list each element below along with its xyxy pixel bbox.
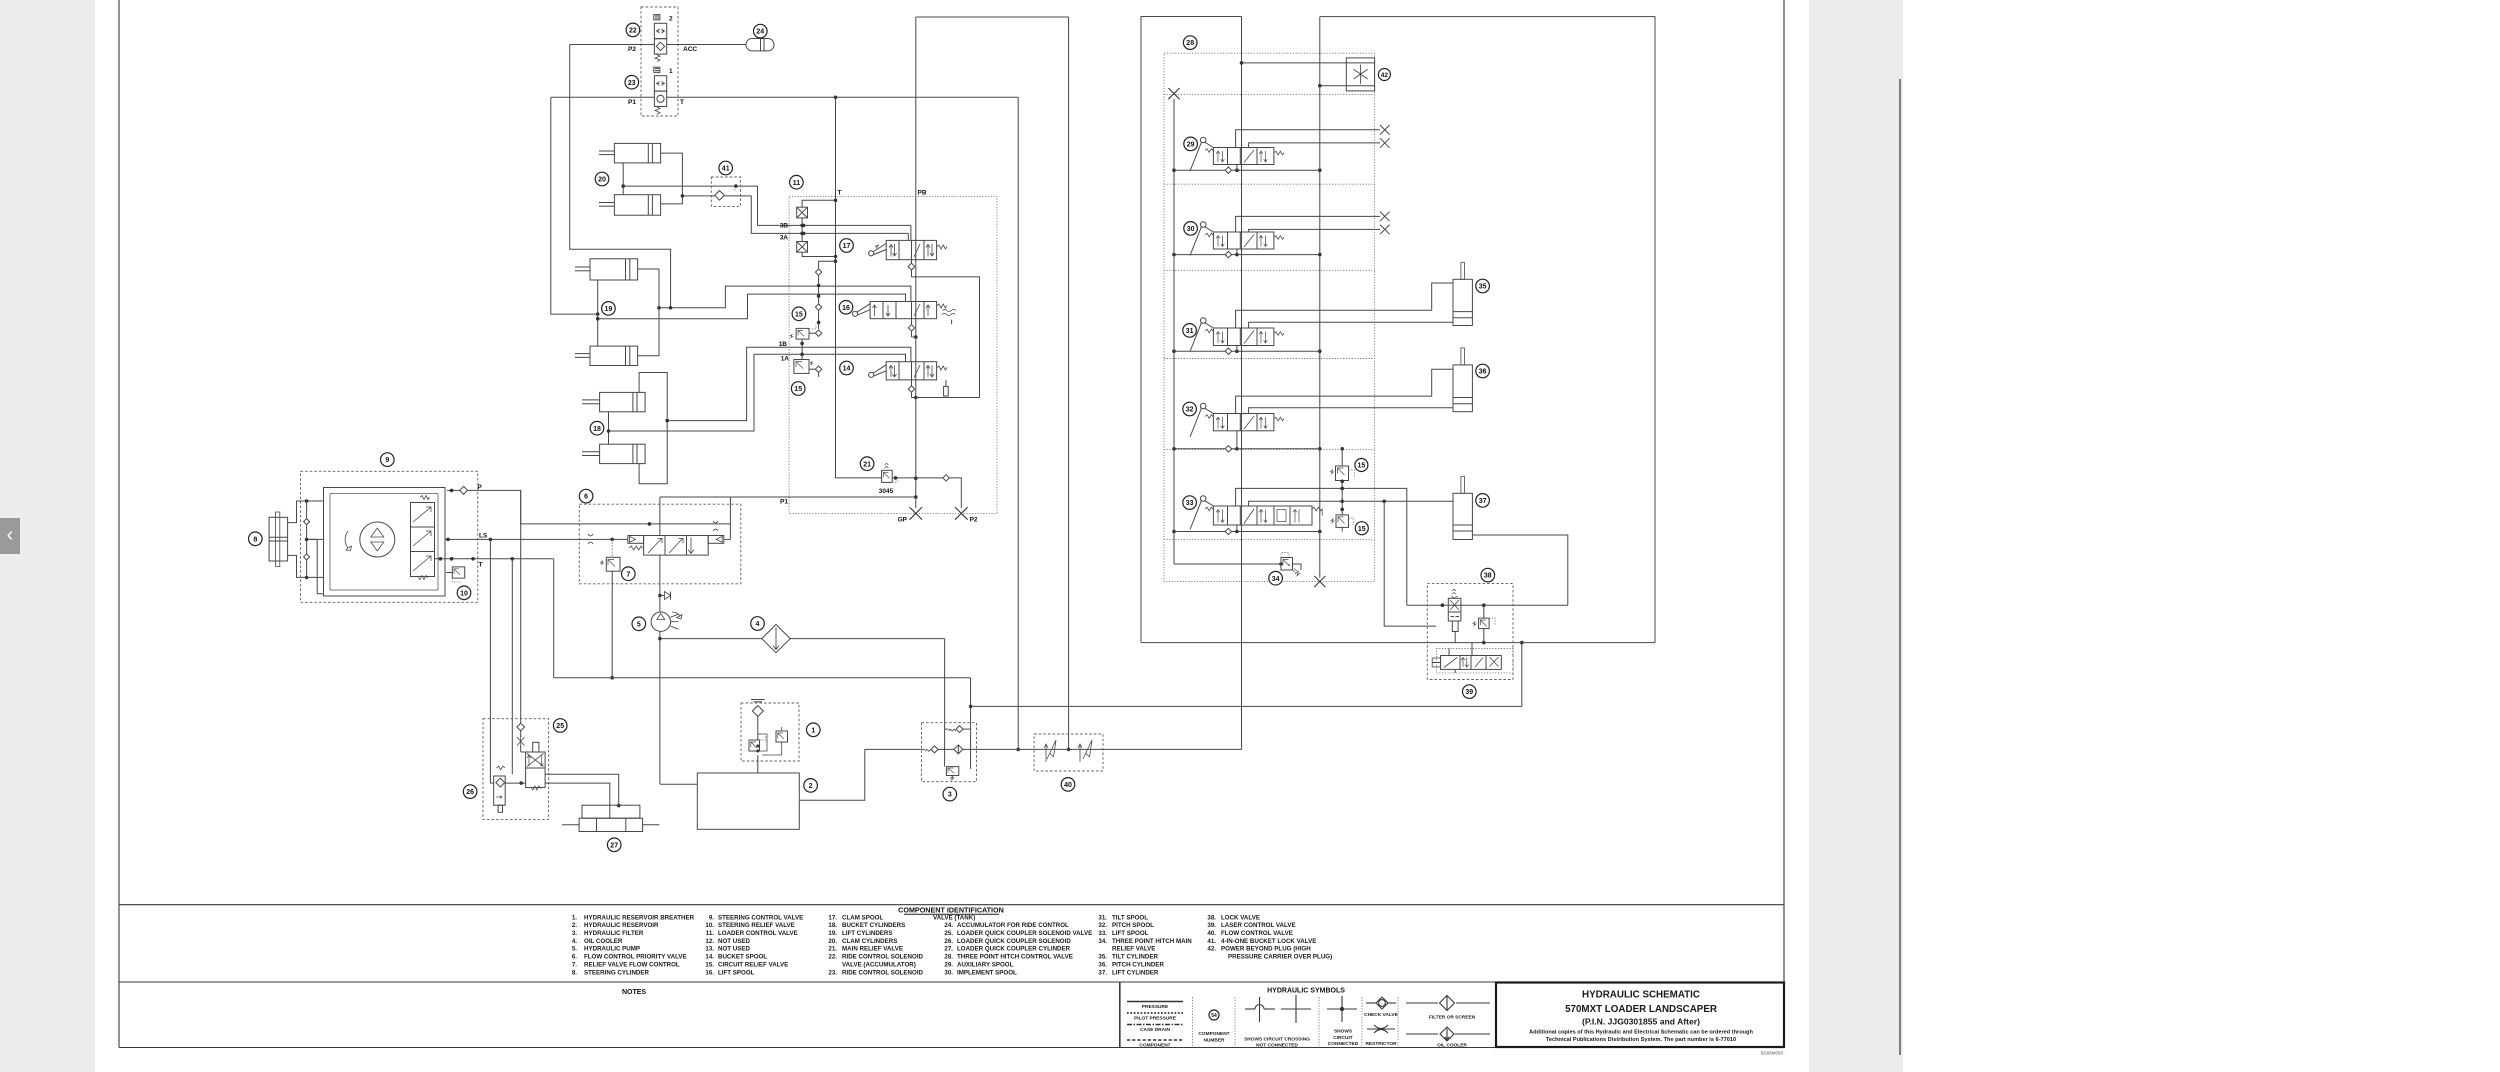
svg-text:LOADER QUICK COUPLER SOLENOID: LOADER QUICK COUPLER SOLENOID	[957, 938, 1071, 945]
wire loader return trunk	[1016, 97, 1020, 751]
pitch cylinder 36	[1453, 348, 1472, 412]
component number 28	[1183, 36, 1197, 50]
component list column 2	[705, 914, 803, 976]
svg-text:HYDRAULIC PUMP: HYDRAULIC PUMP	[584, 946, 640, 953]
line type samples	[1127, 1002, 1183, 1049]
component number 31	[1183, 324, 1197, 338]
svg-text:FILTER OR SCREEN: FILTER OR SCREEN	[1429, 1015, 1476, 1021]
lift spool valve 16	[853, 302, 956, 325]
filter relief	[946, 767, 958, 780]
svg-text:P2: P2	[970, 517, 978, 524]
title box border	[1496, 983, 1784, 1048]
svg-text:10: 10	[460, 590, 468, 597]
svg-text:2: 2	[809, 783, 813, 790]
svg-text:THREE POINT HITCH CONTROL VALV: THREE POINT HITCH CONTROL VALVE	[957, 954, 1073, 961]
auxiliary spool valve 29	[1190, 137, 1284, 171]
svg-text:40.: 40.	[1207, 930, 1216, 937]
wire valve 30 section feed	[1174, 249, 1320, 258]
wire lock valve gallery to laser valve	[1407, 603, 1568, 607]
circuit connected sample	[1327, 996, 1359, 1047]
steering valve spool stack	[411, 496, 435, 580]
svg-text:42.: 42.	[1207, 946, 1216, 953]
laser control valve 39	[1432, 643, 1513, 673]
svg-text:37.: 37.	[1098, 969, 1107, 976]
svg-text:PB: PB	[918, 190, 927, 197]
wire steering load sense column	[304, 501, 324, 594]
svg-text:Technical Publications Distrib: Technical Publications Distribution Syst…	[1546, 1037, 1736, 1043]
svg-text:1B: 1B	[779, 341, 788, 348]
steering unit housing	[324, 488, 446, 597]
wire return line to lock/laser valves	[971, 641, 1524, 707]
plugged port X valve 29 B	[1380, 138, 1390, 148]
svg-text:41.: 41.	[1207, 938, 1216, 945]
svg-text:P2: P2	[628, 46, 636, 53]
svg-text:27: 27	[610, 842, 618, 849]
implement spool valve 30	[1190, 222, 1284, 256]
lock valve 38 / laser control valve 39 dashed enclosure	[1427, 584, 1513, 680]
svg-text:27.: 27.	[944, 946, 953, 953]
svg-text:CHECK VALVE: CHECK VALVE	[1364, 1012, 1398, 1018]
wire valve 31 to tilt cylinder 35	[1236, 283, 1453, 328]
wire valve 30 work ports to plugs	[1236, 216, 1380, 232]
hydraulic reservoir 2	[697, 755, 799, 829]
svg-text:16.: 16.	[705, 969, 714, 976]
svg-text:20: 20	[598, 177, 606, 184]
viewer right gray margin	[1809, 0, 1903, 1072]
svg-text:54: 54	[1211, 1013, 1217, 1019]
svg-text:40: 40	[1064, 782, 1072, 789]
svg-text:AUXILIARY SPOOL: AUXILIARY SPOOL	[957, 961, 1014, 968]
svg-text:17.: 17.	[828, 914, 837, 921]
check poppet below valve 14	[908, 380, 916, 398]
svg-text:39.: 39.	[1207, 922, 1216, 929]
svg-text:15: 15	[795, 311, 803, 318]
steering control valve 9 dashed enclosure	[301, 471, 478, 602]
svg-text:CIRCUIT RELIEF VALVE: CIRCUIT RELIEF VALVE	[718, 961, 788, 968]
component number 34	[1269, 571, 1283, 585]
svg-text:36: 36	[1479, 369, 1487, 376]
svg-text:14: 14	[843, 366, 851, 373]
component number 23	[625, 75, 639, 89]
component number 15	[792, 307, 806, 321]
laser relief valve	[1473, 605, 1496, 642]
wire T trunk	[834, 97, 838, 478]
svg-text:RIDE CONTROL SOLENOID: RIDE CONTROL SOLENOID	[842, 954, 924, 961]
svg-text:CLAM CYLINDERS: CLAM CYLINDERS	[842, 938, 897, 945]
prev-page button	[0, 518, 20, 554]
wire pump riser through priority valve	[658, 497, 662, 612]
check poppet below valve 16	[908, 319, 916, 337]
wire valve 33 section feed	[1174, 525, 1320, 535]
svg-text:LIFT SPOOL: LIFT SPOOL	[718, 969, 755, 976]
svg-text:18: 18	[593, 426, 601, 433]
component number 10	[457, 586, 471, 600]
component number 15	[1355, 522, 1368, 535]
svg-text:34: 34	[1272, 576, 1280, 583]
component number 27	[607, 838, 621, 852]
bucket cylinder 18 lower	[582, 444, 645, 463]
oil cooler 4	[660, 625, 945, 653]
wire steering cylinder upper port	[288, 499, 324, 522]
wire power beyond loop	[1318, 17, 1655, 643]
svg-text:5.: 5.	[572, 946, 577, 953]
component number 15	[791, 382, 805, 396]
wire P1 supply line	[660, 496, 916, 498]
svg-text:FLOW CONTROL VALVE: FLOW CONTROL VALVE	[1221, 930, 1293, 937]
accumulator 24	[746, 39, 774, 51]
dashed enclosure ride control valves 22/23	[641, 7, 678, 116]
plugged port X valve 30 A	[1380, 212, 1390, 222]
svg-text:39: 39	[1465, 689, 1473, 696]
svg-text:HYDRAULIC FILTER: HYDRAULIC FILTER	[584, 930, 644, 937]
wire lift cylinders cap side / 2B	[638, 269, 911, 356]
svg-text:26.: 26.	[944, 938, 953, 945]
filter / oil cooler sample	[1406, 996, 1490, 1049]
solenoid valve 2 (item 22)	[654, 15, 667, 62]
legend top rule	[119, 904, 1784, 906]
component number 17	[840, 239, 854, 253]
wire hitch internal supply column	[1172, 99, 1176, 564]
wire load sense LS line	[307, 538, 628, 542]
wire clam cylinders cap side to check 41 and 3A	[661, 153, 909, 240]
svg-text:26: 26	[466, 789, 474, 796]
filter bypass check	[945, 726, 971, 733]
svg-text:BS08M050: BS08M050	[1761, 1051, 1784, 1056]
svg-text:28.: 28.	[944, 954, 953, 961]
svg-text:31: 31	[1186, 328, 1194, 335]
svg-text:31.: 31.	[1098, 914, 1107, 921]
svg-text:37: 37	[1479, 498, 1487, 505]
svg-text:BUCKET SPOOL: BUCKET SPOOL	[718, 954, 767, 961]
svg-text:3B: 3B	[780, 223, 789, 230]
wire coupler valve work lines	[490, 774, 620, 818]
svg-text:19.: 19.	[828, 930, 837, 937]
wire valve 33 work port A	[1236, 487, 1407, 606]
filter element	[954, 745, 1034, 754]
svg-text:CASE DRAIN: CASE DRAIN	[1140, 1027, 1170, 1033]
hitch outlet plugged port X	[1314, 576, 1325, 587]
wire power beyond trunk	[1067, 17, 1071, 751]
svg-text:6.: 6.	[572, 954, 577, 961]
wire valve 31 section feed	[1174, 346, 1320, 355]
steering relief valve 10	[446, 567, 465, 582]
svg-text:7.: 7.	[572, 961, 577, 968]
clam spool valve 17	[869, 240, 948, 259]
crossing not connected sample	[1244, 995, 1311, 1049]
bucket cylinder 18 upper	[582, 392, 645, 411]
wire priority valve pilot to relief 7	[611, 539, 613, 557]
svg-text:16: 16	[842, 305, 850, 312]
component number 1	[807, 723, 821, 737]
svg-text:COMPONENT: COMPONENT	[1198, 1031, 1229, 1037]
svg-text:STEERING CYLINDER: STEERING CYLINDER	[584, 969, 650, 976]
svg-text:8.: 8.	[572, 969, 577, 976]
filter inlet check	[865, 746, 954, 753]
wire plug 42 supply	[1240, 61, 1347, 86]
component number 5	[632, 617, 646, 631]
component number 26	[463, 785, 477, 799]
component number 7	[622, 567, 636, 581]
svg-text:38.: 38.	[1207, 914, 1216, 921]
svg-text:24: 24	[756, 29, 764, 36]
circuit relief valve 15 lower	[794, 360, 822, 378]
svg-text:OIL COOLER: OIL COOLER	[584, 938, 623, 945]
svg-text:29.: 29.	[944, 961, 953, 968]
svg-text:COMPONENT IDENTIFICATION: COMPONENT IDENTIFICATION	[898, 906, 1004, 915]
component number 42	[1378, 69, 1390, 81]
check valve / restrictor sample	[1364, 997, 1398, 1047]
check poppet below valve 17	[908, 260, 915, 277]
svg-text:RELIEF VALVE: RELIEF VALVE	[1112, 946, 1155, 953]
steering metering pump	[345, 522, 395, 557]
wire coupler solenoid supply risers	[490, 490, 520, 783]
svg-text:33: 33	[1186, 500, 1194, 507]
wire P2 to accumulator	[570, 44, 746, 46]
svg-text:FLOW CONTROL PRIORITY VALVE: FLOW CONTROL PRIORITY VALVE	[584, 954, 687, 961]
viewer left gray margin	[0, 0, 95, 1072]
power beyond plug 42	[1346, 58, 1374, 91]
wire valve 17 tank gallery	[815, 261, 835, 329]
svg-text:(P.I.N. JJG0301855 and After): (P.I.N. JJG0301855 and After)	[1582, 1017, 1700, 1027]
svg-text:VALVE (ACCUMULATOR): VALVE (ACCUMULATOR)	[842, 961, 916, 968]
component list column 1	[572, 914, 695, 976]
wire pump pressure P to priority valve	[468, 490, 731, 539]
svg-text:LOADER QUICK COUPLER SOLENOID: LOADER QUICK COUPLER SOLENOID VALVE	[957, 930, 1092, 937]
check and restrictor above solenoid valve	[517, 723, 526, 752]
bucket spool valve 14	[869, 362, 949, 396]
svg-text:HYDRAULIC SYMBOLS: HYDRAULIC SYMBOLS	[1267, 988, 1345, 995]
svg-text:LOCK VALVE: LOCK VALVE	[1221, 914, 1260, 921]
anti-cavitation check stub	[660, 592, 671, 600]
component number 38	[1481, 568, 1495, 582]
svg-text:3A: 3A	[780, 235, 789, 242]
svg-text:38: 38	[1484, 573, 1492, 580]
component number 25	[553, 719, 567, 733]
svg-text:12.: 12.	[705, 938, 714, 945]
svg-text:TILT CYLINDER: TILT CYLINDER	[1112, 954, 1158, 961]
svg-text:POWER BEYOND PLUG (HIGH: POWER BEYOND PLUG (HIGH	[1221, 946, 1311, 953]
svg-text:Additional copies of this Hydr: Additional copies of this Hydraulic and …	[1529, 1030, 1753, 1036]
check valve 41 (4-in-one bucket lock)	[711, 177, 740, 206]
clam cylinder 20 lower	[599, 195, 661, 216]
component number 18	[590, 421, 604, 435]
wire P1 riser down to lift circuit	[551, 97, 600, 316]
port GP (X)	[910, 507, 923, 520]
svg-text:T: T	[838, 190, 842, 197]
component number 6	[579, 489, 593, 503]
steering cylinder 8	[269, 512, 288, 567]
wire cooler output drop	[944, 639, 946, 767]
three point hitch control valve 28 dashed enclosure	[1164, 53, 1375, 581]
three point hitch main relief valve 34	[1174, 553, 1301, 576]
svg-text:SHOWS: SHOWS	[1334, 1029, 1353, 1035]
solenoid valve 1 (item 23)	[654, 67, 667, 114]
svg-text:T: T	[680, 99, 684, 106]
flow control valve 40 dashed enclosure	[1034, 734, 1103, 771]
component number 30	[1184, 222, 1198, 236]
svg-text:LIFT CYLINDER: LIFT CYLINDER	[1112, 969, 1159, 976]
component number 3	[943, 787, 957, 801]
circuit relief valve 15 (hitch upper)	[1330, 449, 1355, 515]
svg-text:HYDRAULIC SCHEMATIC: HYDRAULIC SCHEMATIC	[1582, 990, 1700, 1001]
svg-text:NOTES: NOTES	[622, 989, 646, 996]
svg-text:3: 3	[948, 792, 952, 799]
wire P2 riser down to lift circuit	[570, 45, 671, 308]
svg-text:28: 28	[1186, 40, 1194, 47]
wire reservoir to filter 3	[799, 749, 865, 800]
loader quick coupler solenoid 26 (check)	[494, 766, 506, 812]
svg-text:35.: 35.	[1098, 954, 1107, 961]
svg-text:P1: P1	[780, 499, 788, 506]
svg-text:5: 5	[637, 621, 641, 628]
wire valve 33 work port B to lift cylinder 37	[1249, 500, 1453, 627]
wire valve 29 section feed	[1174, 165, 1320, 174]
component number 35	[1476, 279, 1490, 293]
svg-text:8: 8	[253, 536, 257, 543]
wire hitch feed rectangle left	[1141, 17, 1242, 643]
symbols cell separators	[1193, 997, 1399, 1047]
svg-text:OIL COOLER: OIL COOLER	[1437, 1043, 1467, 1049]
svg-text:LOADER CONTROL VALVE: LOADER CONTROL VALVE	[718, 930, 798, 937]
component number 21	[860, 457, 874, 471]
svg-text:42: 42	[1381, 72, 1389, 79]
plug port 3B (blocked)	[797, 200, 836, 218]
wire valve 32 section feed	[1174, 431, 1344, 452]
component number 24	[754, 24, 768, 38]
svg-text:17: 17	[843, 243, 851, 250]
svg-text:30: 30	[1187, 226, 1195, 233]
wire pump suction line	[658, 631, 697, 784]
component number 36	[1476, 364, 1490, 378]
svg-text:BUCKET CYLINDERS: BUCKET CYLINDERS	[842, 922, 905, 929]
wire lock valve gallery	[1141, 641, 1655, 645]
scrollbar line	[1899, 79, 1901, 1055]
svg-text:T: T	[479, 562, 483, 569]
svg-text:RIDE CONTROL SOLENOID: RIDE CONTROL SOLENOID	[842, 969, 924, 976]
svg-text:GP: GP	[898, 517, 908, 524]
relief valve flow control 7	[600, 557, 620, 679]
svg-text:MAIN RELIEF VALVE: MAIN RELIEF VALVE	[842, 946, 903, 953]
component number 37	[1476, 494, 1490, 508]
svg-text:23.: 23.	[828, 969, 837, 976]
svg-text:NOT USED: NOT USED	[718, 938, 751, 945]
svg-text:PRESSURE: PRESSURE	[1142, 1004, 1169, 1010]
svg-text:RELIEF VALVE FLOW CONTROL: RELIEF VALVE FLOW CONTROL	[584, 961, 680, 968]
circuit relief valve 15 upper	[790, 324, 822, 360]
circuit relief valve 15 (hitch lower)	[1331, 515, 1354, 532]
wire return line to filter	[554, 678, 973, 769]
lift cylinder 19 upper	[575, 259, 638, 280]
hydraulic pump 5	[651, 612, 682, 631]
svg-text:NOT CONNECTED: NOT CONNECTED	[1256, 1043, 1298, 1049]
svg-text:3045: 3045	[879, 488, 894, 495]
wire tank T line	[435, 557, 554, 561]
svg-text:13.: 13.	[705, 946, 714, 953]
pitch spool valve 32	[1190, 403, 1284, 437]
svg-text:33.: 33.	[1098, 930, 1107, 937]
svg-text:10.: 10.	[705, 922, 714, 929]
legend boxes top rule	[119, 981, 1784, 983]
lift cylinder 37	[1453, 476, 1472, 539]
wire hitch return trunk	[1241, 17, 1243, 750]
component number 41	[719, 161, 733, 175]
wire lift cylinder rod end	[1472, 535, 1567, 605]
wire valve 32 to pitch cylinder 36	[1236, 369, 1453, 413]
component number 15	[1355, 459, 1368, 472]
loader quick coupler solenoid valve 25 dashed enclosure	[483, 719, 549, 820]
component list column 6	[1207, 914, 1332, 960]
component list column 5	[1098, 914, 1192, 976]
component number 14	[840, 361, 854, 375]
hydraulic filter 3 dashed enclosure	[922, 723, 977, 782]
wire bank internal gallery rectangle	[912, 277, 980, 398]
svg-text:LIFT SPOOL: LIFT SPOOL	[1112, 930, 1149, 937]
svg-text:TILT SPOOL: TILT SPOOL	[1112, 914, 1148, 921]
component number 33	[1183, 496, 1197, 510]
svg-text:NOT USED: NOT USED	[718, 946, 751, 953]
svg-text:29: 29	[1187, 142, 1195, 149]
flow control 40 elements	[1034, 740, 1103, 762]
svg-text:23: 23	[628, 80, 636, 87]
svg-text:2.: 2.	[572, 922, 577, 929]
component number 11	[790, 175, 804, 189]
wire main return to loader bank	[1103, 748, 1242, 750]
component number 16	[839, 301, 853, 315]
page right border	[1783, 0, 1785, 1048]
svg-text:24.: 24.	[944, 922, 953, 929]
svg-text:IMPLEMENT SPOOL: IMPLEMENT SPOOL	[957, 969, 1017, 976]
port P diamond	[447, 486, 468, 494]
plug port (blocked) lower	[797, 218, 836, 257]
wire bucket cylinders cap side / 1B	[639, 347, 911, 484]
wire valve 29 work ports to plugs	[1236, 130, 1380, 148]
loader control valve 11 dashed enclosure	[789, 196, 997, 513]
component number 39	[1463, 685, 1477, 699]
notes box right edge / symbols box left edge	[1119, 982, 1121, 1048]
svg-text:STEERING RELIEF VALVE: STEERING RELIEF VALVE	[718, 922, 795, 929]
svg-text:PRESSURE CARRIER OVER PLUG): PRESSURE CARRIER OVER PLUG)	[1228, 954, 1332, 961]
svg-text:HYDRAULIC RESERVOIR BREATHER: HYDRAULIC RESERVOIR BREATHER	[584, 914, 695, 921]
svg-text:22.: 22.	[828, 954, 837, 961]
wire lift cylinders rod side / 2A	[596, 280, 906, 346]
component number 8	[249, 532, 263, 546]
svg-text:SHOWS CIRCUIT CROSSING: SHOWS CIRCUIT CROSSING	[1244, 1037, 1310, 1043]
svg-text:LIFT CYLINDERS: LIFT CYLINDERS	[842, 930, 893, 937]
svg-text:32: 32	[1186, 407, 1194, 414]
svg-text:41: 41	[722, 166, 730, 173]
svg-text:9.: 9.	[709, 914, 714, 921]
component number 20	[595, 172, 609, 186]
component list column 3	[828, 914, 923, 976]
page bottom rule	[119, 1047, 1784, 1049]
component number 40	[1061, 778, 1075, 792]
title block text	[1529, 990, 1753, 1044]
plugged port X valve 29 A	[1380, 125, 1390, 135]
svg-text:11: 11	[793, 180, 801, 187]
svg-text:PITCH CYLINDER: PITCH CYLINDER	[1112, 961, 1164, 968]
svg-text:22: 22	[629, 28, 637, 35]
svg-text:1.: 1.	[572, 914, 577, 921]
port P2 (X)	[955, 507, 968, 520]
svg-text:6: 6	[584, 494, 588, 501]
component identification header	[898, 906, 1004, 915]
breather vent and filter	[749, 700, 788, 756]
svg-text:570MXT LOADER LANDSCAPER: 570MXT LOADER LANDSCAPER	[1565, 1004, 1717, 1015]
component list column 4	[933, 914, 1092, 976]
svg-text:36.: 36.	[1098, 961, 1107, 968]
lift cylinder 19 lower	[575, 346, 638, 365]
component number 32	[1183, 402, 1197, 416]
